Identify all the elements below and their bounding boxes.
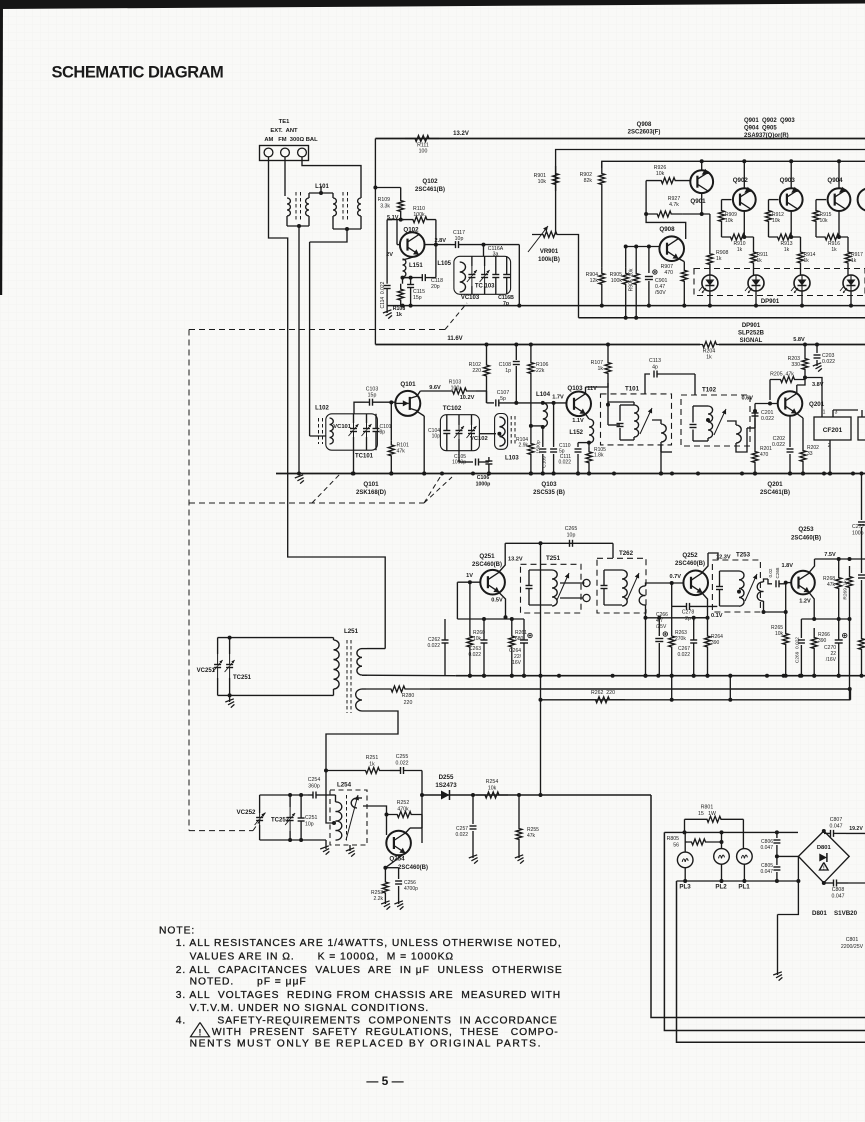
capacitor C270 22/16V [835, 639, 843, 641]
wire lamp rail [664, 831, 798, 833]
T251 arrow [557, 573, 569, 600]
wire Q254 emitter [385, 853, 405, 868]
wire T262 out to Q252 base [650, 582, 684, 584]
svg-text:15 1W: 15 1W [698, 811, 716, 817]
svg-text:1S2473: 1S2473 [435, 782, 457, 789]
ceramic filter CF202 partial [858, 417, 865, 440]
resistor R916 1k [815, 226, 817, 237]
wire top lower rail 2 [579, 317, 865, 319]
svg-text:8p: 8p [380, 430, 386, 436]
svg-text:220: 220 [472, 368, 481, 374]
svg-text:2SC461(B): 2SC461(B) [415, 187, 445, 193]
svg-text:390: 390 [818, 638, 827, 644]
node L151 bottom [401, 276, 405, 280]
inductor L152 [586, 414, 590, 419]
svg-text:L104: L104 [536, 391, 551, 398]
wire Q904 collector down [838, 211, 840, 237]
inductor L104 [541, 401, 545, 405]
wire to R109 [375, 187, 400, 189]
dashed box DP901 LEDs [694, 269, 865, 296]
svg-text:0.022: 0.022 [558, 460, 571, 466]
tank box L103 [495, 414, 508, 450]
ground row1 left [295, 475, 303, 478]
capacitor C110 5p [553, 403, 555, 447]
svg-text:2SC461(B): 2SC461(B) [760, 490, 790, 496]
resistor R254 10k [476, 792, 508, 798]
resistor R913 1k [768, 226, 770, 237]
wire Q201 collector [796, 385, 798, 394]
resistor R252 470k [387, 812, 423, 818]
dashed gang mid horizontal [189, 502, 424, 504]
svg-text:L103: L103 [505, 456, 519, 462]
capacitor C263 0.022 [481, 639, 488, 641]
transistor Q254 [386, 831, 411, 856]
resistor R265 10k [783, 620, 789, 658]
resistor R105 1.8k [588, 443, 590, 447]
wire Q901 emitter down [701, 193, 703, 214]
svg-text:0.022: 0.022 [455, 832, 468, 838]
capacitor C105 1000p [475, 459, 477, 466]
svg-text:T101: T101 [625, 386, 640, 393]
svg-text:0.022: 0.022 [427, 643, 440, 649]
resistor R911 1k [753, 237, 755, 244]
svg-text:0.022: 0.022 [822, 359, 835, 365]
svg-text:VR901: VR901 [540, 249, 559, 255]
svg-text:7.5V: 7.5V [824, 552, 836, 558]
svg-text:1k: 1k [851, 258, 857, 264]
capacitor C807 0.047 [830, 830, 832, 837]
capacitor C111 0.022 [578, 442, 589, 444]
svg-text:680: 680 [515, 636, 524, 642]
svg-text:VC102: VC102 [470, 436, 488, 442]
svg-text:0.022: 0.022 [772, 442, 785, 448]
svg-text:!: ! [198, 1028, 201, 1039]
wire R110 right down to collector [435, 220, 437, 245]
svg-text:R109: R109 [378, 197, 391, 203]
node Q102 collector [434, 243, 438, 247]
wire R908 from R927 node [709, 214, 711, 247]
wire Q252 base node [670, 581, 674, 585]
dashed gang diagonal to VC102 [424, 477, 452, 503]
wire L251 sec lower bottom [326, 711, 398, 771]
trimmer TC251 [226, 664, 233, 666]
svg-text:10p: 10p [432, 434, 441, 440]
svg-text:Q901: Q901 [690, 198, 706, 205]
svg-text:Q908: Q908 [637, 122, 652, 128]
svg-text:4700p: 4700p [404, 886, 418, 892]
svg-text:13.2V: 13.2V [508, 557, 523, 563]
resistor R262 220 [580, 697, 625, 703]
wire emitter node tie2 [801, 618, 849, 620]
svg-text:WITH PRESENT SAFETY REGULAT: WITH PRESENT SAFETY REGULATIONS, THESE C… [212, 1027, 559, 1038]
T101 secondary [661, 424, 666, 442]
svg-text:1.7V: 1.7V [552, 395, 564, 401]
svg-text:9.6V: 9.6V [429, 385, 441, 391]
svg-text:1500p: 1500p [536, 440, 542, 454]
wire R103 to R102 node [476, 390, 487, 392]
svg-text:D801: D801 [812, 910, 827, 917]
svg-text:TC102: TC102 [443, 405, 462, 412]
capacitor C269 0.022 [800, 619, 802, 638]
resistor R269 [847, 566, 853, 598]
trimmer VC252 [256, 817, 263, 819]
wire AM antenna jog [288, 474, 386, 649]
svg-text:Q101: Q101 [400, 381, 416, 388]
svg-text:10.2V: 10.2V [460, 395, 475, 401]
svg-text:/25V: /25V [656, 624, 667, 630]
capacitor C901 0.47/50V electrolytic [648, 247, 650, 274]
wire T102 out to Q201 base [754, 404, 756, 429]
wire R252 right to collector [421, 795, 423, 815]
capacitor C106 1000p [488, 457, 490, 462]
wire bridge top to C807 [822, 829, 826, 833]
svg-text:0.022: 0.022 [761, 416, 774, 422]
terminal FM [281, 148, 290, 157]
wire x671 vertical [671, 676, 673, 700]
ceramic filter CF201 [814, 417, 851, 440]
wire R901 to VR901 [555, 192, 557, 235]
svg-text:Q902: Q902 [733, 177, 749, 184]
svg-text:2.2k: 2.2k [374, 896, 384, 902]
svg-text:SIGNAL: SIGNAL [740, 338, 763, 344]
svg-text:2SC460(B): 2SC460(B) [472, 562, 502, 568]
svg-text:2200/25V: 2200/25V [841, 944, 864, 950]
wire TC102 to L103 tap [480, 433, 496, 435]
svg-text:11.6V: 11.6V [447, 336, 462, 342]
capacitor C107 5p [495, 399, 497, 406]
svg-text:SAFETY-REQUIREMENTS COMPONENT: SAFETY-REQUIREMENTS COMPONENTS IN ACCORD… [217, 1016, 557, 1027]
tank box L102/VC101 [326, 414, 378, 450]
wire tank top to C103 [354, 402, 365, 414]
L251 secondary lower [356, 689, 362, 711]
svg-text:C265: C265 [565, 526, 578, 532]
svg-text:C251: C251 [305, 815, 318, 821]
node Q201 collector 3.8V [803, 376, 807, 380]
ground tank [325, 840, 327, 849]
svg-text:47k: 47k [527, 833, 536, 839]
svg-text:470: 470 [664, 270, 673, 276]
svg-text:Q201: Q201 [767, 481, 783, 488]
terminal AM [264, 148, 273, 157]
wire T251-T262 links [560, 582, 583, 584]
svg-text:R280: R280 [402, 693, 415, 699]
resistor R910 1k [721, 226, 723, 237]
wire Q901 collector top [701, 161, 703, 170]
T251 coil [552, 570, 557, 606]
wire T101 input [606, 403, 610, 407]
resistor R106 22k [529, 343, 533, 347]
svg-text:330: 330 [791, 362, 800, 368]
svg-text:2SC460(B): 2SC460(B) [398, 865, 428, 871]
svg-text:R269 1k: R269 1k [843, 580, 849, 600]
svg-text:10k: 10k [488, 786, 497, 792]
T262 cap [601, 585, 608, 587]
capacitor C108 1p [514, 343, 518, 347]
wire Q902 emitter top [743, 161, 745, 188]
dashed gang line to VC103 [445, 303, 467, 330]
svg-text:EXT. ANT: EXT. ANT [270, 128, 298, 134]
node 5.1V [399, 218, 403, 222]
resistor R261 680 [509, 628, 515, 655]
capacitor C255 0.022 [400, 767, 402, 774]
svg-text:7p: 7p [503, 301, 509, 307]
node 13.2V branch [373, 186, 377, 190]
pilot lamp PL3 [677, 852, 693, 868]
svg-text:15p: 15p [368, 393, 377, 399]
svg-text:R252: R252 [397, 800, 410, 806]
wire bottom rail lamps [677, 880, 799, 882]
capacitor C257 0.022 [472, 795, 474, 824]
svg-text:10k: 10k [820, 218, 829, 224]
svg-text:— 5 —: — 5 — [366, 1074, 403, 1088]
svg-text:VALUES ARE IN Ω. K = 1000: VALUES ARE IN Ω. K = 1000Ω, M = 1000KΩ [190, 952, 454, 963]
capacitor C278 2p [686, 603, 688, 610]
svg-text:33: 33 [807, 451, 813, 457]
T262 secondary [639, 586, 645, 605]
dashed diagonal to bus [424, 474, 442, 503]
svg-text:270k: 270k [675, 636, 686, 642]
svg-text:Q904: Q904 [827, 177, 843, 184]
wire 7.5V line [815, 558, 865, 560]
resistor R255 47k [518, 795, 520, 821]
svg-text:1k: 1k [706, 355, 712, 361]
wire lamp bottoms [684, 868, 686, 881]
capacitor C254 360p [312, 792, 314, 799]
svg-text:10k: 10k [538, 179, 547, 185]
svg-text:VC252: VC252 [237, 809, 256, 816]
svg-text:Q102: Q102 [422, 178, 438, 185]
svg-text:3. ALL VOLTAGES REDING FROM: 3. ALL VOLTAGES REDING FROM CHASSIS ARE … [176, 990, 561, 1001]
wire emitter node tie [457, 618, 524, 620]
capacitor C808 0.047 [833, 880, 835, 887]
wire FM lower rail [387, 305, 865, 307]
capacitor C265 10p [569, 540, 571, 547]
svg-text:TC101: TC101 [355, 454, 374, 460]
svg-text:L102: L102 [315, 406, 329, 412]
svg-text:0.047: 0.047 [830, 824, 843, 830]
svg-text:10p: 10p [567, 533, 576, 539]
T251 cap [526, 585, 533, 587]
svg-text:V.T.V.M. UNDER NO SIGNAL CONDI: V.T.V.M. UNDER NO SIGNAL CONDITIONS. [190, 1003, 430, 1014]
svg-text:1: 1 [823, 410, 826, 416]
resistor R110 100k [401, 219, 404, 221]
wire tank TC102 bottom [458, 451, 460, 462]
wire x730 vertical [729, 676, 731, 700]
svg-text:56: 56 [673, 843, 679, 849]
svg-text:L151: L151 [409, 263, 423, 269]
svg-text:2SC2603(F): 2SC2603(F) [628, 130, 661, 136]
svg-text:390: 390 [711, 640, 720, 646]
svg-text:C255: C255 [396, 754, 409, 760]
svg-text:100: 100 [451, 386, 460, 392]
wire emitter tie [694, 617, 708, 619]
wire Q908 emitter to R907 [679, 259, 685, 262]
resistor R203 330 [803, 343, 807, 347]
resistor R280 220 [366, 686, 430, 692]
svg-text:10k: 10k [473, 636, 482, 642]
svg-text:0.02: 0.02 [768, 568, 773, 577]
resistor R912 10k [769, 199, 779, 201]
wire R280 line right [430, 688, 850, 690]
IF transformer T253 box [712, 560, 760, 612]
trimmer TC101 [363, 428, 370, 430]
svg-text:1. ALL RESISTANCES ARE 1/4WATT: 1. ALL RESISTANCES ARE 1/4WATTS, UNLESS … [176, 938, 562, 949]
wire T253 sec to C268 [768, 579, 772, 584]
wire Q102 base from R109 [396, 220, 398, 245]
svg-text:12k: 12k [590, 278, 599, 284]
wire BAL terminal down-right [302, 157, 361, 198]
svg-text:L251: L251 [344, 628, 359, 635]
ground under C203 [813, 363, 821, 366]
capacitor T101 cap [608, 404, 614, 406]
svg-text:1000p: 1000p [452, 460, 466, 466]
warning triangle D801 [820, 863, 829, 871]
svg-text:2.8V: 2.8V [434, 238, 446, 244]
wire Q903 emitter top [790, 161, 792, 188]
T102 secondary [736, 425, 741, 443]
svg-text:R205 47k: R205 47k [770, 372, 794, 378]
capacitor C806 0.047 [776, 832, 778, 838]
resistor R107 1k [607, 345, 609, 359]
svg-text:1.2V: 1.2V [799, 599, 811, 605]
inductor L103 dashed core [510, 416, 512, 446]
svg-text:T262: T262 [619, 550, 634, 557]
svg-text:DP901: DP901 [742, 323, 761, 329]
svg-text:4.7k: 4.7k [669, 202, 679, 208]
capacitor C268 0.02 [775, 580, 777, 587]
wire bridge bottom to ground col [778, 881, 799, 915]
wire Q902 collector down [743, 211, 745, 237]
wire Q253 base [784, 581, 788, 585]
wire top rail 3 [602, 161, 865, 168]
potentiometer VR901 100k(B) [532, 232, 568, 238]
terminal strip TE1 box [260, 146, 309, 161]
svg-text:2SC460(B): 2SC460(B) [791, 536, 821, 542]
wire R902 down [601, 191, 603, 268]
svg-text:0.7V: 0.7V [669, 574, 681, 580]
IF transformer T262 box [597, 558, 646, 613]
L254 arrow [346, 795, 358, 840]
svg-text:D801: D801 [817, 845, 832, 851]
svg-text:1.1V: 1.1V [572, 418, 584, 424]
wire R927 right to Q901 emitter [682, 213, 710, 215]
svg-text:C254: C254 [308, 777, 321, 783]
svg-text:L101: L101 [315, 184, 329, 190]
svg-text:/16V: /16V [826, 657, 837, 663]
dashed diagonal to VC101 [312, 474, 340, 503]
capacitor C264 22/16V [520, 639, 528, 641]
wire T253 sec bottom [763, 601, 765, 612]
T251 out terminals [583, 579, 590, 586]
capacitor C118 20p [421, 274, 423, 281]
inductor L151 [403, 255, 420, 260]
dashed diagonal to VC252 [253, 811, 267, 831]
svg-text:13.2V: 13.2V [453, 131, 469, 137]
svg-text:TE1: TE1 [279, 119, 290, 125]
junction dots row1 bus [351, 472, 355, 476]
svg-text:3.3k: 3.3k [380, 204, 390, 210]
svg-text:VC251: VC251 [197, 668, 216, 674]
svg-text:220: 220 [404, 700, 413, 706]
svg-text:47k: 47k [397, 449, 406, 455]
wire frame line2 [664, 832, 865, 1030]
T253 coil [739, 571, 744, 606]
wire L251 primary bottom [218, 694, 334, 696]
svg-text:T251: T251 [546, 555, 561, 562]
wire Q201 base [755, 403, 778, 405]
wire right vertical to lower rail [518, 245, 520, 306]
svg-text:D255: D255 [439, 774, 454, 781]
T262 coil [622, 570, 627, 606]
svg-text:1.8V: 1.8V [781, 563, 793, 569]
wire Q254 base [385, 842, 387, 844]
T101 primary coil [634, 405, 639, 437]
wire Q252 collector [703, 553, 709, 572]
L254 secondary [351, 798, 357, 808]
capacitor C109 1500p [542, 427, 544, 447]
svg-text:470: 470 [760, 452, 769, 458]
capacitor C114 0.022 [386, 220, 388, 284]
dashed gang outline top [189, 329, 447, 331]
svg-text:PL1: PL1 [738, 884, 750, 891]
wire tank bottom to bus [353, 450, 355, 473]
node C257 [471, 793, 475, 797]
terminal BAL [298, 148, 307, 157]
capacitor C262 0.022 [444, 619, 446, 638]
svg-text:C268: C268 [775, 567, 780, 578]
wire Q251 base [457, 581, 480, 583]
capacitor C267 0.022 [690, 639, 697, 641]
wire row1 ground bus [276, 473, 865, 475]
svg-text:C807: C807 [830, 817, 843, 823]
wire frame line3 [677, 881, 865, 1042]
wire L101 bottoms [286, 216, 288, 226]
trimmer TC102a [456, 430, 463, 432]
oscillator coil L254 box [330, 790, 367, 845]
wire Q253 collector [810, 559, 815, 572]
T102 cap [690, 424, 697, 426]
svg-text:C278: C278 [682, 610, 695, 616]
resistor R917 1k [847, 237, 849, 244]
node osc feedback [324, 769, 328, 773]
svg-text:3a: 3a [493, 252, 499, 258]
svg-text:C114 0.022: C114 0.022 [380, 281, 386, 308]
resistor R102 220 [486, 345, 488, 361]
wire T253 sec bottom to R265 [764, 611, 786, 613]
wire x850 corner [850, 689, 852, 700]
LED at 851 [843, 275, 859, 291]
svg-text:L254: L254 [337, 782, 352, 789]
svg-text:0.022: 0.022 [396, 761, 409, 767]
wire Q251 emitter [499, 593, 505, 617]
svg-text:1000p: 1000p [476, 482, 491, 488]
ground under C114 [386, 306, 388, 313]
svg-text:0.6V: 0.6V [741, 396, 753, 402]
svg-text:Q101: Q101 [363, 481, 379, 488]
svg-text:360p: 360p [308, 784, 320, 790]
capacitor C256 4700p [385, 867, 398, 869]
capacitor C104 10p [443, 430, 450, 432]
T253 arrow [745, 574, 757, 601]
svg-text:2SC460(B): 2SC460(B) [675, 561, 705, 567]
T262 arrow [627, 573, 639, 600]
trimmer VC103 [468, 274, 475, 276]
T253 cap [716, 586, 723, 588]
wire Q103 collector up [585, 387, 587, 394]
svg-text:Q904 Q905: Q904 Q905 [744, 126, 777, 132]
wire main left vertical 13.2V to 11.6V [374, 139, 376, 345]
wire antenna to L102 [309, 420, 311, 436]
